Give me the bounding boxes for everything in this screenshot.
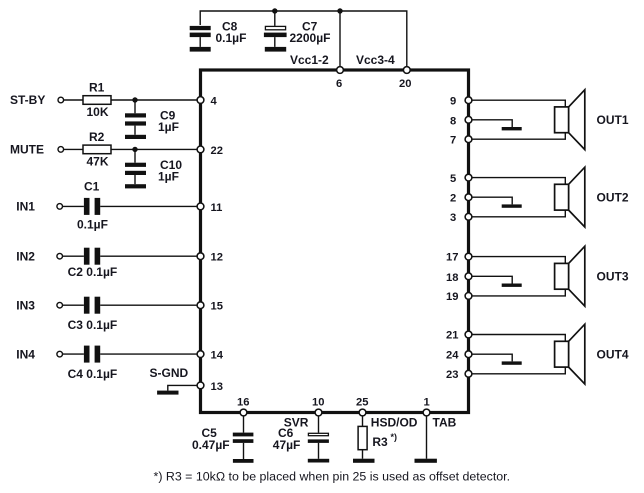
wire top supply rail <box>200 11 407 70</box>
wire IN3 to C3 <box>63 304 84 306</box>
ground for TAB <box>415 459 437 463</box>
wire R2 to pin 22 <box>111 148 201 150</box>
svg-text:ST-BY: ST-BY <box>10 93 45 107</box>
svg-text:OUT2: OUT2 <box>597 190 629 204</box>
pin 7 <box>465 136 472 143</box>
svg-text:C4 0.1µF: C4 0.1µF <box>68 367 118 381</box>
speaker OUT4 <box>555 324 629 384</box>
pin 25 <box>359 409 366 416</box>
wire pin 23 to speaker <box>469 367 566 374</box>
svg-text:HSD/OD: HSD/OD <box>371 415 418 429</box>
wire pin 7 to speaker <box>469 133 566 140</box>
capacitor C10 <box>125 149 182 184</box>
capacitor C4 <box>68 346 118 381</box>
svg-text:20: 20 <box>399 78 411 90</box>
svg-text:23: 23 <box>446 369 458 381</box>
wire pin 2 to ground <box>469 197 513 204</box>
ground for C5 <box>233 459 254 463</box>
capacitor C1 <box>77 180 108 232</box>
svg-text:OUT3: OUT3 <box>597 270 629 284</box>
svg-text:47K: 47K <box>87 154 109 168</box>
svg-text:47µF: 47µF <box>273 438 301 452</box>
terminal MUTE <box>58 147 64 153</box>
pin 8 <box>465 116 472 123</box>
capacitor C9 <box>125 100 179 135</box>
pin 13 <box>197 382 204 389</box>
pin 3 <box>465 213 472 220</box>
svg-text:19: 19 <box>446 291 458 303</box>
svg-text:1µF: 1µF <box>158 169 179 183</box>
svg-text:9: 9 <box>450 96 456 108</box>
node junction at C7 <box>272 8 277 13</box>
svg-text:3: 3 <box>450 212 456 224</box>
ground for C8 <box>190 47 211 52</box>
wire ST-BY to R1 <box>64 99 83 101</box>
pin 11 <box>197 203 204 210</box>
capacitor C3 <box>68 297 118 332</box>
svg-text:OUT1: OUT1 <box>597 113 629 127</box>
terminal ST-BY <box>58 97 64 103</box>
svg-text:7: 7 <box>450 135 456 147</box>
svg-text:0.1µF: 0.1µF <box>77 218 108 232</box>
ground S-GND <box>157 391 178 395</box>
speaker OUT3 <box>555 246 629 306</box>
pin 19 <box>465 293 472 300</box>
svg-text:1: 1 <box>424 397 430 409</box>
pin 14 <box>197 351 204 358</box>
ground for C9 <box>125 135 146 139</box>
svg-text:8: 8 <box>450 115 456 127</box>
ground for R3 <box>353 459 375 463</box>
ground for C7 <box>265 47 286 52</box>
capacitor C5 <box>192 417 253 460</box>
pin 9 <box>465 97 472 104</box>
svg-text:11: 11 <box>211 202 223 214</box>
wire pin 8 to ground <box>469 120 513 127</box>
wire IN1 to C1 <box>63 205 84 207</box>
node junction above pin 6 <box>337 8 342 13</box>
ground at pin 2 <box>502 204 522 207</box>
svg-text:10: 10 <box>312 397 324 409</box>
svg-text:0.47µF: 0.47µF <box>192 438 230 452</box>
node junction R2/C10 <box>132 147 137 152</box>
svg-text:12: 12 <box>211 252 223 264</box>
svg-text:6: 6 <box>336 78 342 90</box>
wire pin 17 to speaker <box>469 257 566 264</box>
pin 22 <box>197 146 204 153</box>
pin 24 <box>465 351 472 358</box>
pin 5 <box>465 174 472 181</box>
svg-text:*) R3 = 10kΩ to be placed when: *) R3 = 10kΩ to be placed when pin 25 is… <box>154 470 511 484</box>
capacitor C7 <box>264 11 331 47</box>
svg-text:14: 14 <box>211 350 224 362</box>
svg-text:2: 2 <box>450 193 456 205</box>
speaker OUT2 <box>555 167 629 227</box>
svg-text:22: 22 <box>211 145 223 157</box>
capacitor C2 <box>68 248 118 279</box>
svg-text:*): *) <box>391 432 398 442</box>
ground for C10 <box>125 184 146 188</box>
pin 10 <box>315 409 322 416</box>
wire C1 to pin 11 <box>100 205 200 207</box>
pin 2 <box>465 194 472 201</box>
svg-text:1µF: 1µF <box>158 120 179 134</box>
pin 15 <box>197 302 204 309</box>
ground at pin 24 <box>502 361 522 364</box>
terminal IN1 <box>57 204 63 210</box>
svg-text:4: 4 <box>211 96 218 108</box>
svg-text:TAB: TAB <box>433 415 457 429</box>
svg-text:Vcc3-4: Vcc3-4 <box>356 53 395 67</box>
wire pin 13 to ground <box>168 385 201 390</box>
pin 12 <box>197 253 204 260</box>
resistor R1 <box>83 81 111 120</box>
wire pin 3 to speaker <box>469 210 566 217</box>
svg-text:R1: R1 <box>89 81 105 95</box>
wire R1 to pin 4 <box>111 99 201 101</box>
pin 21 <box>465 331 472 338</box>
wire IN4 to C4 <box>63 353 84 355</box>
svg-text:25: 25 <box>356 397 368 409</box>
pin 6 <box>337 67 344 74</box>
pin 1 TAB <box>423 409 430 416</box>
wire pin 19 to speaker <box>469 289 566 296</box>
capacitor C6 <box>273 417 329 459</box>
wire pin 24 to ground <box>469 354 513 361</box>
wire pin 1 to ground <box>426 417 428 459</box>
wire C4 to pin 14 <box>100 353 200 355</box>
svg-text:IN2: IN2 <box>16 249 35 263</box>
svg-text:18: 18 <box>446 272 458 284</box>
svg-text:C1: C1 <box>84 180 100 194</box>
svg-text:C3 0.1µF: C3 0.1µF <box>68 318 118 332</box>
resistor R2 <box>83 130 111 169</box>
svg-text:0.1µF: 0.1µF <box>216 31 247 45</box>
wire pin 18 to ground <box>469 276 513 283</box>
wire MUTE to R2 <box>64 148 83 150</box>
speaker OUT1 <box>555 90 629 150</box>
wire pin 9 to speaker <box>469 100 566 107</box>
pin 4 <box>197 97 204 104</box>
ground for C6 <box>308 459 329 463</box>
svg-text:MUTE: MUTE <box>10 142 44 156</box>
svg-text:Vcc1-2: Vcc1-2 <box>290 53 329 67</box>
svg-text:17: 17 <box>446 252 458 264</box>
pin 17 <box>465 253 472 260</box>
pin 18 <box>465 273 472 280</box>
wire IN2 to C2 <box>63 255 84 257</box>
terminal IN2 <box>57 253 63 259</box>
svg-text:2200µF: 2200µF <box>290 31 331 45</box>
node junction R1/C9 <box>132 97 137 102</box>
wire rail to pin 6 <box>339 11 341 70</box>
svg-text:R3: R3 <box>372 435 388 449</box>
wire pin 21 to speaker <box>469 335 566 342</box>
resistor R3 <box>358 417 397 459</box>
svg-text:IN1: IN1 <box>16 200 35 214</box>
svg-text:S-GND: S-GND <box>150 366 189 380</box>
svg-text:C2 0.1µF: C2 0.1µF <box>68 265 118 279</box>
pin 20 <box>403 67 410 74</box>
capacitor C8 <box>190 20 247 47</box>
pin 23 <box>465 370 472 377</box>
svg-text:16: 16 <box>237 397 249 409</box>
wire C3 to pin 15 <box>100 304 200 306</box>
wire pin 5 to speaker <box>469 178 566 185</box>
wire C2 to pin 12 <box>100 255 200 257</box>
svg-text:10K: 10K <box>87 105 109 119</box>
svg-text:R2: R2 <box>89 130 105 144</box>
svg-text:24: 24 <box>446 350 459 362</box>
svg-text:13: 13 <box>211 381 223 393</box>
svg-text:5: 5 <box>450 173 456 185</box>
svg-text:21: 21 <box>446 330 458 342</box>
ground at pin 8 <box>502 127 522 130</box>
svg-text:IN4: IN4 <box>16 347 35 361</box>
svg-text:IN3: IN3 <box>16 298 35 312</box>
terminal IN4 <box>57 351 63 357</box>
IC body U1 <box>201 70 469 413</box>
svg-text:15: 15 <box>211 301 223 313</box>
pin 16 <box>240 409 247 416</box>
terminal IN3 <box>57 302 63 308</box>
ground at pin 18 <box>502 284 522 287</box>
svg-text:OUT4: OUT4 <box>597 347 629 361</box>
